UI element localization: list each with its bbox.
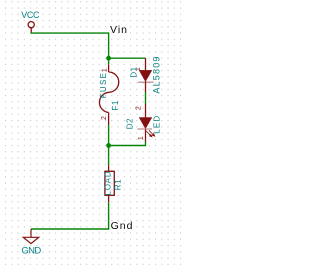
wire D2 to junction [109,142,146,146]
svg-text:Vin: Vin [110,24,128,36]
resistor R1 pin 1 [108,165,110,171]
svg-text:GND: GND [21,246,41,257]
svg-text:LED: LED [152,115,161,134]
svg-text:2: 2 [101,116,108,120]
svg-text:2: 2 [136,106,143,110]
svg-text:F1: F1 [111,100,120,111]
resistor R1 body [105,171,114,195]
diode D2 pin 2 [145,104,147,118]
wire down from Vin corner to fuse [108,32,110,64]
power symbol GND [23,229,38,244]
junction node Vin [106,56,111,61]
svg-text:D2: D2 [125,118,134,129]
svg-text:VCC: VCC [21,10,40,20]
svg-text:Gnd: Gnd [111,220,134,232]
svg-text:LOAD: LOAD [104,171,113,196]
svg-text:AL5809: AL5809 [152,55,162,93]
wire VCC to Vin corner [31,32,109,34]
svg-text:R1: R1 [113,178,122,190]
fuse F1 [99,64,118,124]
svg-text:D1: D1 [130,66,139,77]
diode D1 pin 1 [145,58,147,70]
diode D1 pin 2 [145,81,147,92]
LED D2 body [137,118,152,129]
wire junction to D1 [109,57,146,59]
svg-text:1: 1 [102,68,109,72]
svg-text:1: 1 [138,136,145,140]
diode D1 body [138,70,154,82]
wire D1 to D2 [145,92,147,104]
power symbol VCC [28,22,34,33]
resistor R1 pin 2 [108,195,110,202]
diode D2 pin 1 [145,129,147,141]
junction node at R1 top [106,143,111,148]
wire fuse to R1 [108,125,110,166]
wire R1 to GND corner [31,202,109,229]
svg-text:FUSE: FUSE [99,72,108,99]
LED D2 arrows [146,130,155,137]
